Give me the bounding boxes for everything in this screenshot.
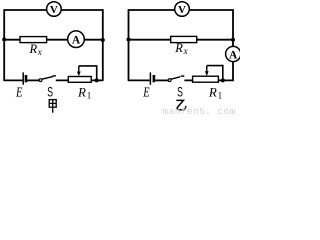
svg-text:R: R [77,85,86,100]
node: right junction of middle branch on right wire (right circuit) [231,38,235,42]
voltmeter V (left circuit) [47,2,62,17]
label yi (Chinese character under right circuit) [176,100,186,109]
svg-text:V: V [50,4,58,16]
wire: right circuit bottom wire segment (battery to switch) [155,79,168,81]
wire: left circuit right vertical wire [102,9,104,81]
node: left junction of middle branch on left wire (right circuit) [127,38,131,42]
resistor Rx (right circuit) [171,36,197,56]
switch S (right circuit) [168,76,184,82]
wire: right circuit bottom wire segment (switch to bottom-right corner) [184,79,233,81]
ammeter A (right circuit) [226,46,241,61]
rheostat R1 (left circuit) [68,66,91,82]
wire: right rheostat wiper branch (up, right, down) [207,66,223,81]
wire: left circuit top wire [4,9,104,11]
wire: right circuit right vertical wire [232,9,234,81]
wire: left circuit bottom wire segment (switch to bottom-right corner) [56,79,103,81]
svg-text:A: A [229,49,238,61]
svg-text:R: R [174,41,183,55]
svg-text:R: R [208,85,217,100]
svg-text:A: A [72,35,81,47]
label jia (Chinese character under left circuit) [49,100,56,113]
wire: right circuit middle wire (Rx branch) [128,39,234,41]
svg-text:x: x [37,47,42,57]
svg-text:E: E [142,84,150,100]
battery E (left circuit) [23,72,26,84]
resistor Rx (left circuit) [20,37,47,57]
voltmeter V (right circuit) [175,2,190,17]
wire: left circuit middle wire (Rx and ammeter branch) [4,39,104,41]
wire: right circuit bottom wire segment (corner to battery) [128,79,150,81]
label R1 (right circuit) [208,85,222,101]
svg-text:R: R [29,42,38,56]
svg-text:x: x [183,46,188,56]
wire: left circuit bottom wire segment (battery to switch) [27,79,39,81]
node: left junction of middle branch on left wire [2,38,6,42]
label R1 (left circuit) [77,85,91,101]
switch S (left circuit) [39,76,56,82]
wire: left circuit bottom wire segment (corner to battery) [4,79,23,81]
svg-text:E: E [15,84,23,100]
svg-text:1: 1 [87,91,92,101]
wire: left rheostat wiper branch (up, right, down) [79,66,97,81]
svg-text:S: S [177,84,183,100]
rheostat R1 (right circuit) [193,66,219,83]
ammeter A (left circuit) [68,31,85,48]
node: junction of wiper branch on bottom wire (right circuit) [221,78,225,82]
wire: left circuit left vertical wire [3,9,5,81]
svg-text:1: 1 [218,91,223,101]
wire: right circuit left vertical wire [128,9,130,81]
wire: right circuit top wire [128,9,234,11]
node: junction of wiper branch on bottom wire (left circuit) [95,78,99,82]
svg-text:V: V [178,4,186,16]
battery E (right circuit) [150,72,154,84]
svg-text:S: S [47,84,53,100]
node: right junction of middle branch on right wire [101,38,105,42]
svg-text:manfen5. com: manfen5. com [163,106,236,115]
